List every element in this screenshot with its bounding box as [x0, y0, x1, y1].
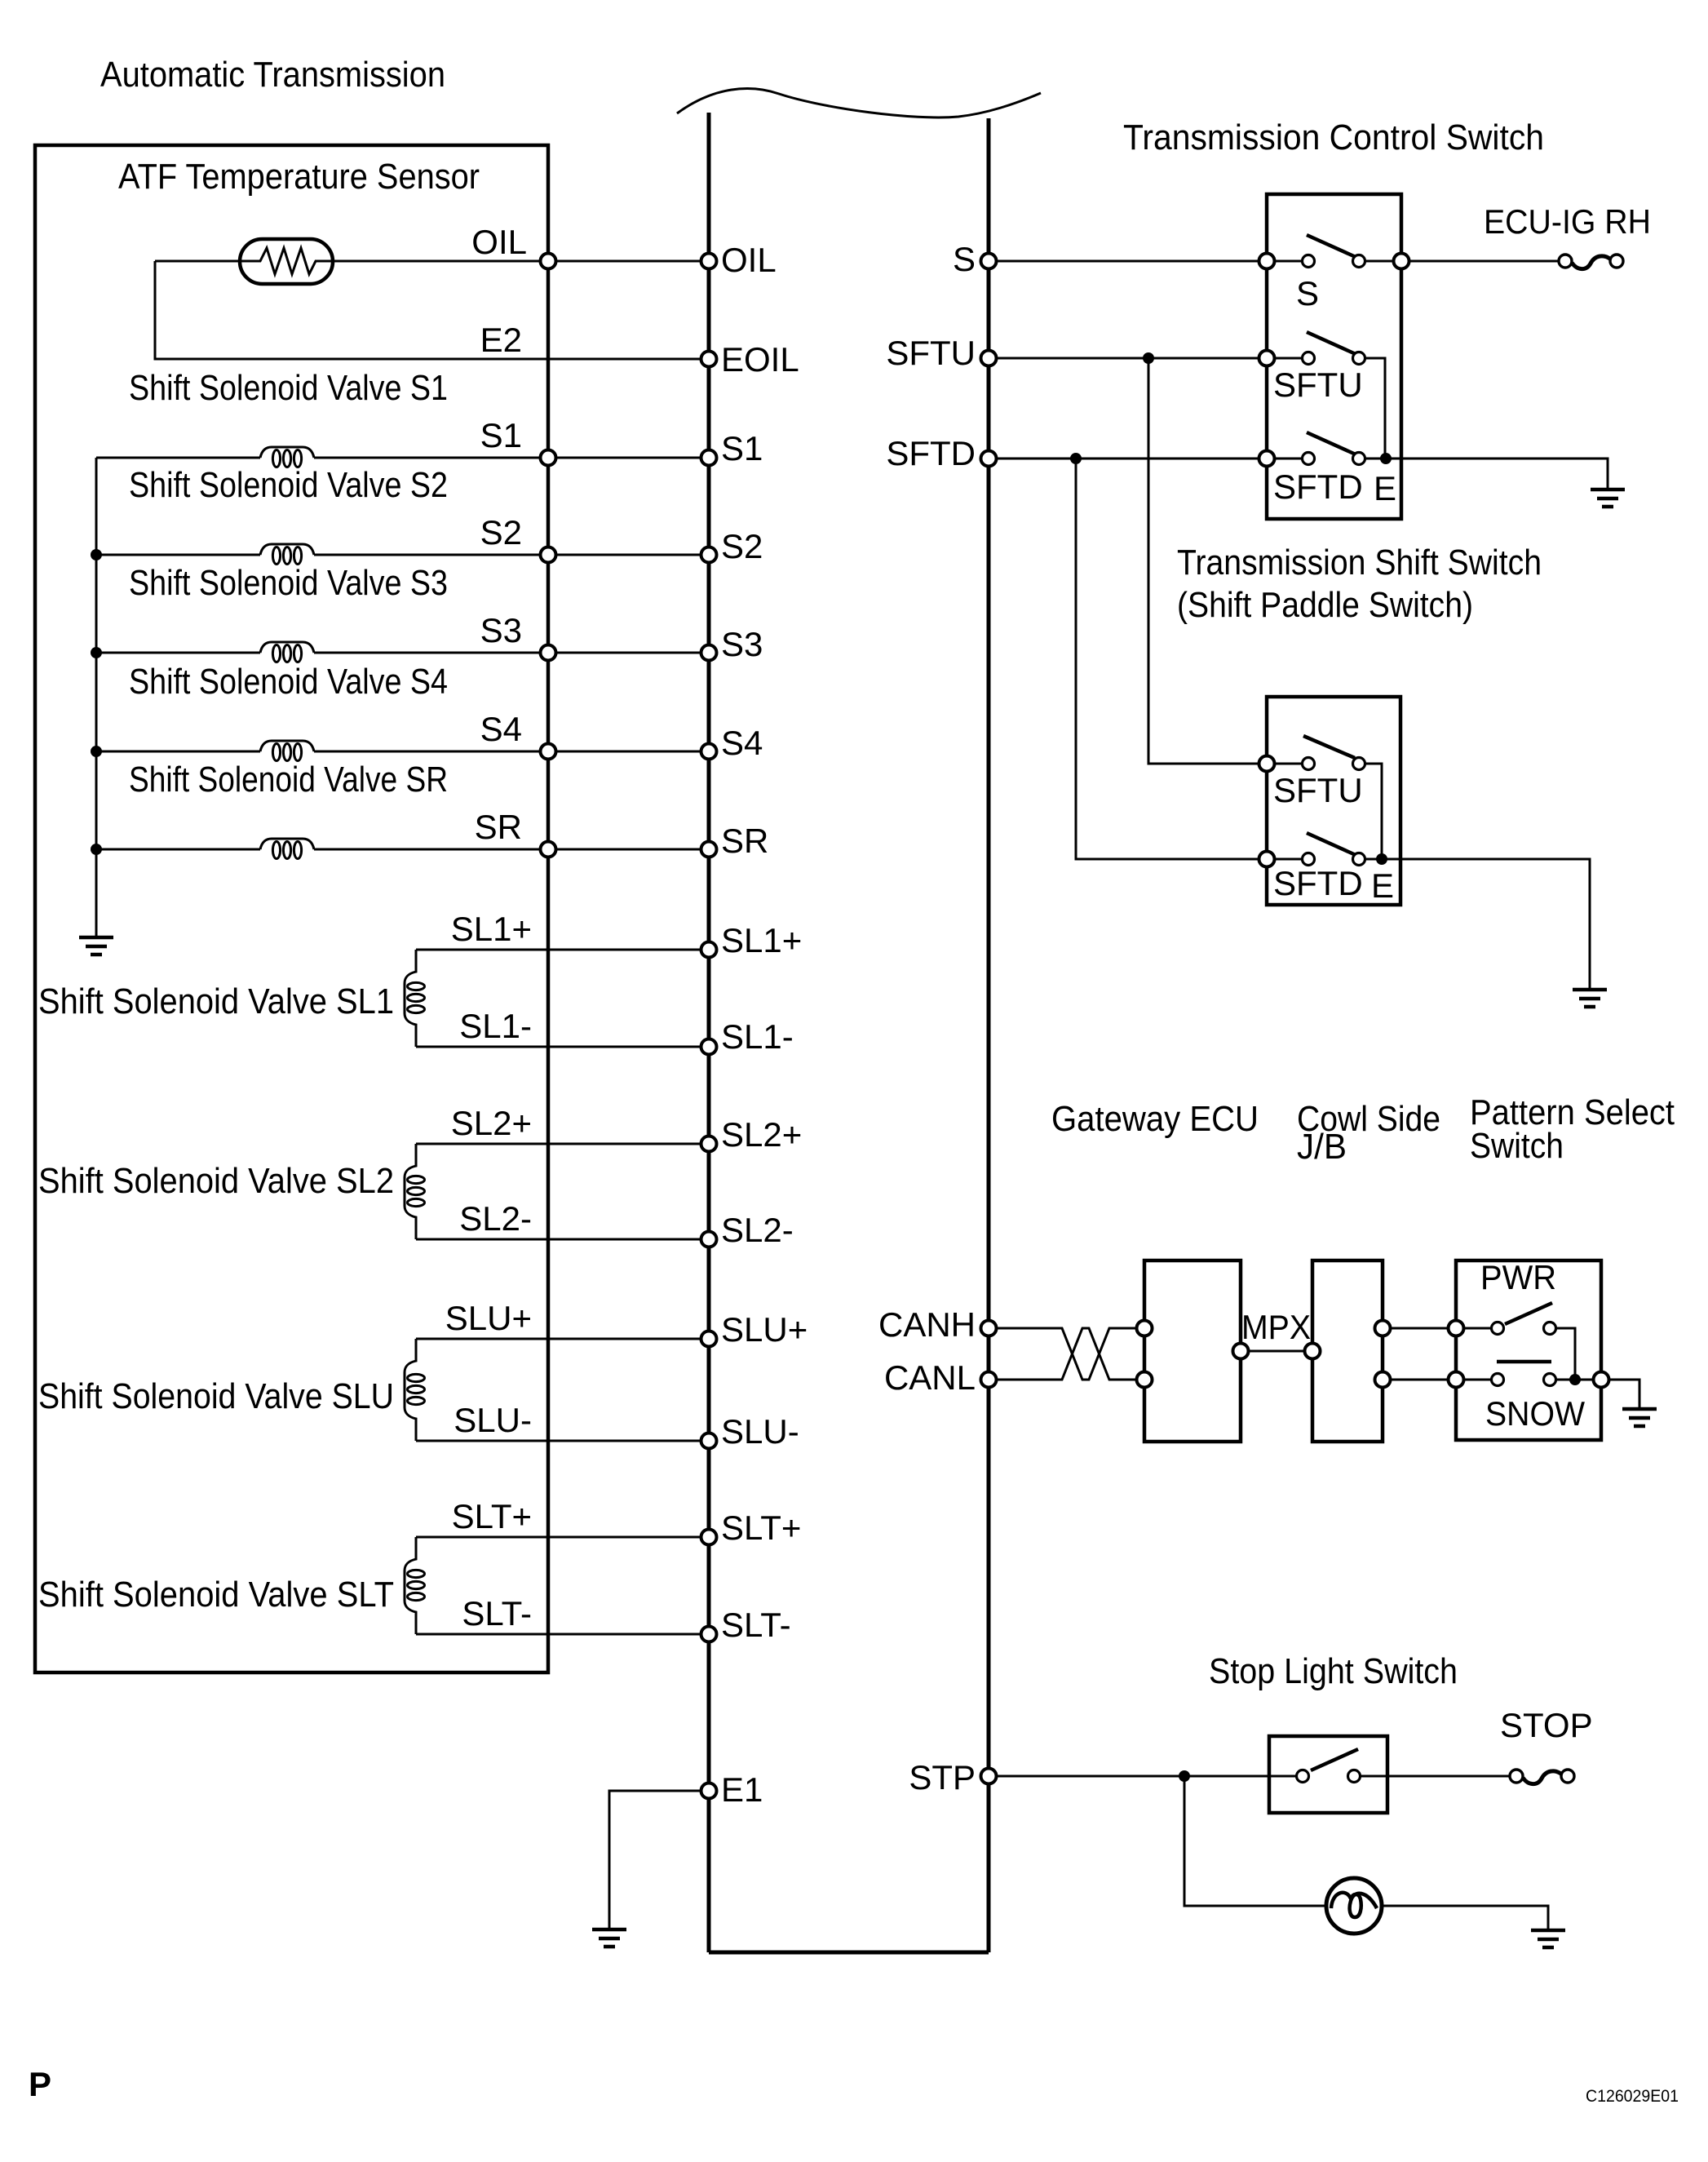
svg-text:E: E: [1371, 866, 1394, 905]
svg-text:MPX: MPX: [1241, 1308, 1311, 1346]
svg-text:SLT-: SLT-: [462, 1594, 532, 1633]
wire SFTD branch to paddle: [1076, 459, 1308, 859]
terminal OIL at transmission box edge: [541, 254, 556, 269]
terminal SL2+ on ECM: [701, 1136, 717, 1152]
terminal CANL gateway: [1137, 1372, 1153, 1388]
svg-text:P: P: [29, 2065, 51, 2103]
svg-text:ECU-IG RH: ECU-IG RH: [1484, 202, 1651, 241]
svg-text:SR: SR: [721, 822, 768, 860]
linear solenoid coil SL1 with wires: [416, 950, 709, 1047]
wire SFTU row: [997, 357, 1308, 360]
wire S row: [997, 260, 1559, 263]
svg-text:S2: S2: [721, 527, 763, 565]
svg-text:SL1-: SL1-: [721, 1017, 794, 1056]
terminal S3 at transmission box edge: [541, 645, 556, 661]
linear solenoid coil SL2 with wires: [416, 1144, 709, 1239]
terminal EOIL on ECM: [701, 352, 717, 367]
ground (paddle switch E): [1573, 990, 1607, 1007]
junction SFTU branch: [1143, 352, 1154, 364]
terminal S on ECM: [981, 254, 997, 269]
terminal S3 on ECM: [701, 645, 717, 661]
terminal SL2- on ECM: [701, 1232, 717, 1247]
svg-text:EOIL: EOIL: [721, 340, 799, 379]
svg-text:S3: S3: [721, 625, 763, 663]
paddle switch box: [1267, 697, 1400, 905]
solenoid coil SR with wire: [96, 848, 709, 851]
solenoid coil S3 with wire: [96, 652, 709, 654]
svg-text:SLU-: SLU-: [454, 1401, 532, 1439]
wire OIL row: [155, 260, 709, 263]
svg-text:Shift Solenoid Valve S1: Shift Solenoid Valve S1: [129, 368, 448, 408]
cowl side J/B box: [1312, 1260, 1383, 1442]
svg-text:Stop Light Switch: Stop Light Switch: [1209, 1651, 1458, 1691]
wire E2 row: [155, 261, 709, 359]
terminal OIL on ECM: [701, 254, 717, 269]
wire pattern switch to ground: [1609, 1380, 1639, 1409]
terminal SLU- on ECM: [701, 1433, 717, 1449]
pattern select switch box: [1456, 1260, 1601, 1440]
terminal S4 on ECM: [701, 744, 717, 760]
svg-text:SLU+: SLU+: [445, 1299, 532, 1337]
wire cowl to pattern switch upper: [1391, 1327, 1498, 1330]
linear solenoid coil SLT with wires: [416, 1537, 709, 1634]
wire E to ground: [1365, 459, 1608, 490]
junction on solenoid ground bus at S3: [91, 647, 102, 658]
svg-text:CANH: CANH: [878, 1305, 976, 1344]
ground (E1): [592, 1929, 626, 1947]
svg-text:SL1-: SL1-: [459, 1007, 532, 1045]
terminal S1 at transmission box edge: [541, 450, 556, 466]
svg-text:CANL: CANL: [884, 1358, 976, 1397]
terminal SR on ECM: [701, 842, 717, 857]
svg-text:STOP: STOP: [1500, 1706, 1593, 1744]
svg-text:SFTD: SFTD: [886, 434, 976, 472]
wire bulb to ground: [1382, 1906, 1548, 1930]
terminal MPX gateway: [1233, 1344, 1249, 1359]
terminal paddle SFTU: [1259, 756, 1275, 772]
svg-text:PWR: PWR: [1480, 1258, 1556, 1296]
wire stop switch to fuse: [1361, 1775, 1510, 1778]
wire CANH with twisted pair: [997, 1328, 1144, 1380]
svg-text:SL1+: SL1+: [451, 910, 532, 948]
svg-text:S3: S3: [480, 611, 522, 649]
terminal SL1- on ECM: [701, 1039, 717, 1055]
svg-text:SL2+: SL2+: [451, 1104, 532, 1142]
svg-text:SFTU: SFTU: [886, 334, 976, 372]
svg-text:Shift Solenoid Valve S4: Shift Solenoid Valve S4: [129, 662, 448, 702]
svg-text:S4: S4: [480, 710, 522, 748]
terminal S switch right: [1394, 254, 1409, 269]
paddle SFTD contacts and blade: [1303, 853, 1315, 866]
wire paddle SFTU contact to E junction: [1365, 764, 1382, 859]
svg-text:S1: S1: [721, 429, 763, 467]
terminal pattern switch lower left: [1449, 1372, 1464, 1388]
terminal CANL on ECM: [981, 1372, 997, 1388]
wire MPX: [1249, 1350, 1312, 1353]
junction on solenoid ground bus at S4: [91, 746, 102, 757]
svg-text:Transmission Shift Switch: Transmission Shift Switch: [1177, 543, 1542, 583]
wire PWR contact down to SNOW row: [1556, 1328, 1575, 1380]
svg-text:SL2-: SL2-: [459, 1199, 532, 1238]
terminal SR at transmission box edge: [541, 842, 556, 857]
wire paddle E to ground: [1365, 859, 1590, 990]
terminal SLT- on ECM: [701, 1627, 717, 1642]
terminal cowl upper right: [1375, 1321, 1391, 1336]
svg-text:SNOW: SNOW: [1485, 1394, 1585, 1433]
svg-text:Shift Solenoid Valve S3: Shift Solenoid Valve S3: [129, 563, 448, 603]
svg-text:OIL: OIL: [721, 241, 777, 279]
wire E1 to ground: [609, 1791, 701, 1929]
svg-text:Gateway ECU: Gateway ECU: [1051, 1099, 1259, 1139]
svg-text:Transmission Control Switch: Transmission Control Switch: [1123, 117, 1544, 157]
svg-text:SL2+: SL2+: [721, 1115, 802, 1154]
terminal STP on ECM: [981, 1769, 997, 1784]
wire STP row: [997, 1775, 1303, 1778]
wire SFTU branch to paddle: [1148, 358, 1308, 764]
svg-text:Shift Solenoid Valve SR: Shift Solenoid Valve SR: [129, 760, 448, 800]
svg-text:E1: E1: [721, 1770, 763, 1809]
svg-text:SLT-: SLT-: [721, 1606, 791, 1644]
terminal pattern switch upper left: [1449, 1321, 1464, 1336]
svg-text:Shift Solenoid Valve S2: Shift Solenoid Valve S2: [129, 465, 448, 505]
solenoid coil S2 with wire: [96, 554, 709, 556]
switch SFTU contacts and blade: [1303, 352, 1315, 365]
svg-text:(Shift Paddle Switch): (Shift Paddle Switch): [1177, 585, 1473, 625]
transmission control switch box: [1267, 194, 1401, 519]
terminal cowl lower right: [1375, 1372, 1391, 1388]
svg-text:SR: SR: [475, 808, 522, 846]
svg-text:SFTD: SFTD: [1273, 864, 1363, 902]
svg-text:SFTU: SFTU: [1273, 771, 1363, 809]
svg-text:SLU-: SLU-: [721, 1412, 799, 1451]
junction E node: [1380, 453, 1392, 464]
svg-text:SLU+: SLU+: [721, 1310, 808, 1349]
svg-text:SLT+: SLT+: [452, 1497, 532, 1535]
terminal MPX cowl: [1305, 1344, 1321, 1359]
ECM top break squiggle: [677, 89, 1041, 117]
fuse ECU-IG RH: [1559, 255, 1572, 268]
svg-text:SL1+: SL1+: [721, 921, 802, 959]
svg-text:SLT+: SLT+: [721, 1509, 801, 1547]
solenoid coil S1 with wire: [96, 457, 709, 459]
Automatic Transmission box: [35, 145, 548, 1672]
junction paddle E node: [1376, 853, 1387, 865]
terminal SFTU on ECM: [981, 351, 997, 366]
svg-text:Shift Solenoid Valve SL1: Shift Solenoid Valve SL1: [38, 981, 394, 1021]
terminal E1 on ECM: [701, 1783, 717, 1799]
ground (pattern select switch): [1622, 1409, 1657, 1426]
stop light switch box: [1269, 1736, 1387, 1813]
svg-text:Switch: Switch: [1470, 1126, 1564, 1166]
terminal SLU+ on ECM: [701, 1331, 717, 1347]
ground (stop light): [1531, 1930, 1565, 1947]
junction on solenoid ground bus at S2: [91, 549, 102, 560]
terminal SFTD on ECM: [981, 451, 997, 467]
switch SFTD contacts and blade: [1303, 453, 1315, 465]
stop switch contacts and blade: [1297, 1770, 1309, 1783]
svg-text:SFTD: SFTD: [1273, 467, 1363, 506]
switch S contacts and blade: [1303, 255, 1315, 268]
svg-text:J/B: J/B: [1297, 1127, 1347, 1167]
terminal S1 on ECM: [701, 450, 717, 466]
svg-text:Shift Solenoid Valve SLT: Shift Solenoid Valve SLT: [38, 1575, 394, 1615]
SNOW contacts and closed bar: [1492, 1374, 1504, 1386]
svg-text:SFTU: SFTU: [1273, 366, 1363, 404]
paddle SFTU contacts and blade: [1303, 758, 1315, 770]
svg-text:Automatic Transmission: Automatic Transmission: [100, 55, 445, 95]
terminal S2 at transmission box edge: [541, 547, 556, 563]
terminal CANH gateway: [1137, 1321, 1153, 1336]
terminal SL1+ on ECM: [701, 942, 717, 958]
wire SNOW row to right terminal: [1556, 1379, 1601, 1381]
svg-text:Shift Solenoid Valve SL2: Shift Solenoid Valve SL2: [38, 1161, 394, 1201]
terminal CANH on ECM: [981, 1321, 997, 1336]
svg-text:C126029E01: C126029E01: [1586, 2087, 1679, 2106]
terminal SFTD switch: [1259, 451, 1275, 467]
ECM right bus line: [987, 118, 991, 1952]
terminal S switch left: [1259, 254, 1275, 269]
terminal paddle SFTD: [1259, 852, 1275, 867]
terminal pattern switch right: [1594, 1372, 1609, 1388]
svg-text:Shift Solenoid Valve SLU: Shift Solenoid Valve SLU: [38, 1376, 394, 1416]
terminal SFTU switch: [1259, 351, 1275, 366]
svg-text:S2: S2: [480, 513, 522, 552]
svg-text:E2: E2: [480, 321, 522, 359]
junction SNOW node: [1569, 1374, 1581, 1385]
junction STP branch: [1179, 1770, 1190, 1782]
svg-text:S1: S1: [480, 416, 522, 454]
stop light bulb: [1326, 1878, 1382, 1934]
wire cowl to pattern switch lower: [1391, 1379, 1498, 1381]
gateway ECU box: [1144, 1260, 1241, 1442]
svg-text:S: S: [1296, 274, 1319, 312]
svg-text:STP: STP: [909, 1758, 976, 1796]
svg-text:SL2-: SL2-: [721, 1211, 794, 1249]
terminal S2 on ECM: [701, 547, 717, 563]
solenoid coil S4 with wire: [96, 751, 709, 753]
ECM left bus line: [707, 113, 711, 1952]
linear solenoid coil SLU with wires: [416, 1339, 709, 1441]
junction on solenoid ground bus at SR: [91, 844, 102, 855]
svg-text:ATF Temperature Sensor: ATF Temperature Sensor: [118, 157, 480, 197]
terminal SLT+ on ECM: [701, 1530, 717, 1545]
svg-text:OIL: OIL: [471, 223, 527, 261]
junction SFTD branch: [1070, 453, 1082, 464]
fuse STOP: [1510, 1770, 1523, 1783]
svg-text:S4: S4: [721, 724, 763, 762]
svg-text:E: E: [1374, 469, 1396, 507]
wire to stop light bulb: [1184, 1776, 1326, 1906]
terminal S4 at transmission box edge: [541, 744, 556, 760]
PWR contacts and blade: [1492, 1322, 1504, 1335]
ground (solenoid bus): [79, 937, 113, 955]
wire SFTD row: [997, 458, 1308, 460]
wire SFTU contact to E junction: [1365, 358, 1385, 459]
ground (control switch E): [1591, 490, 1625, 507]
svg-text:S: S: [953, 240, 976, 278]
ECM bottom edge: [709, 1951, 989, 1955]
wire CANL with twisted pair: [997, 1328, 1144, 1380]
solenoid ground bus wire: [95, 458, 98, 937]
thermistor ATF temperature sensor: [240, 239, 333, 284]
